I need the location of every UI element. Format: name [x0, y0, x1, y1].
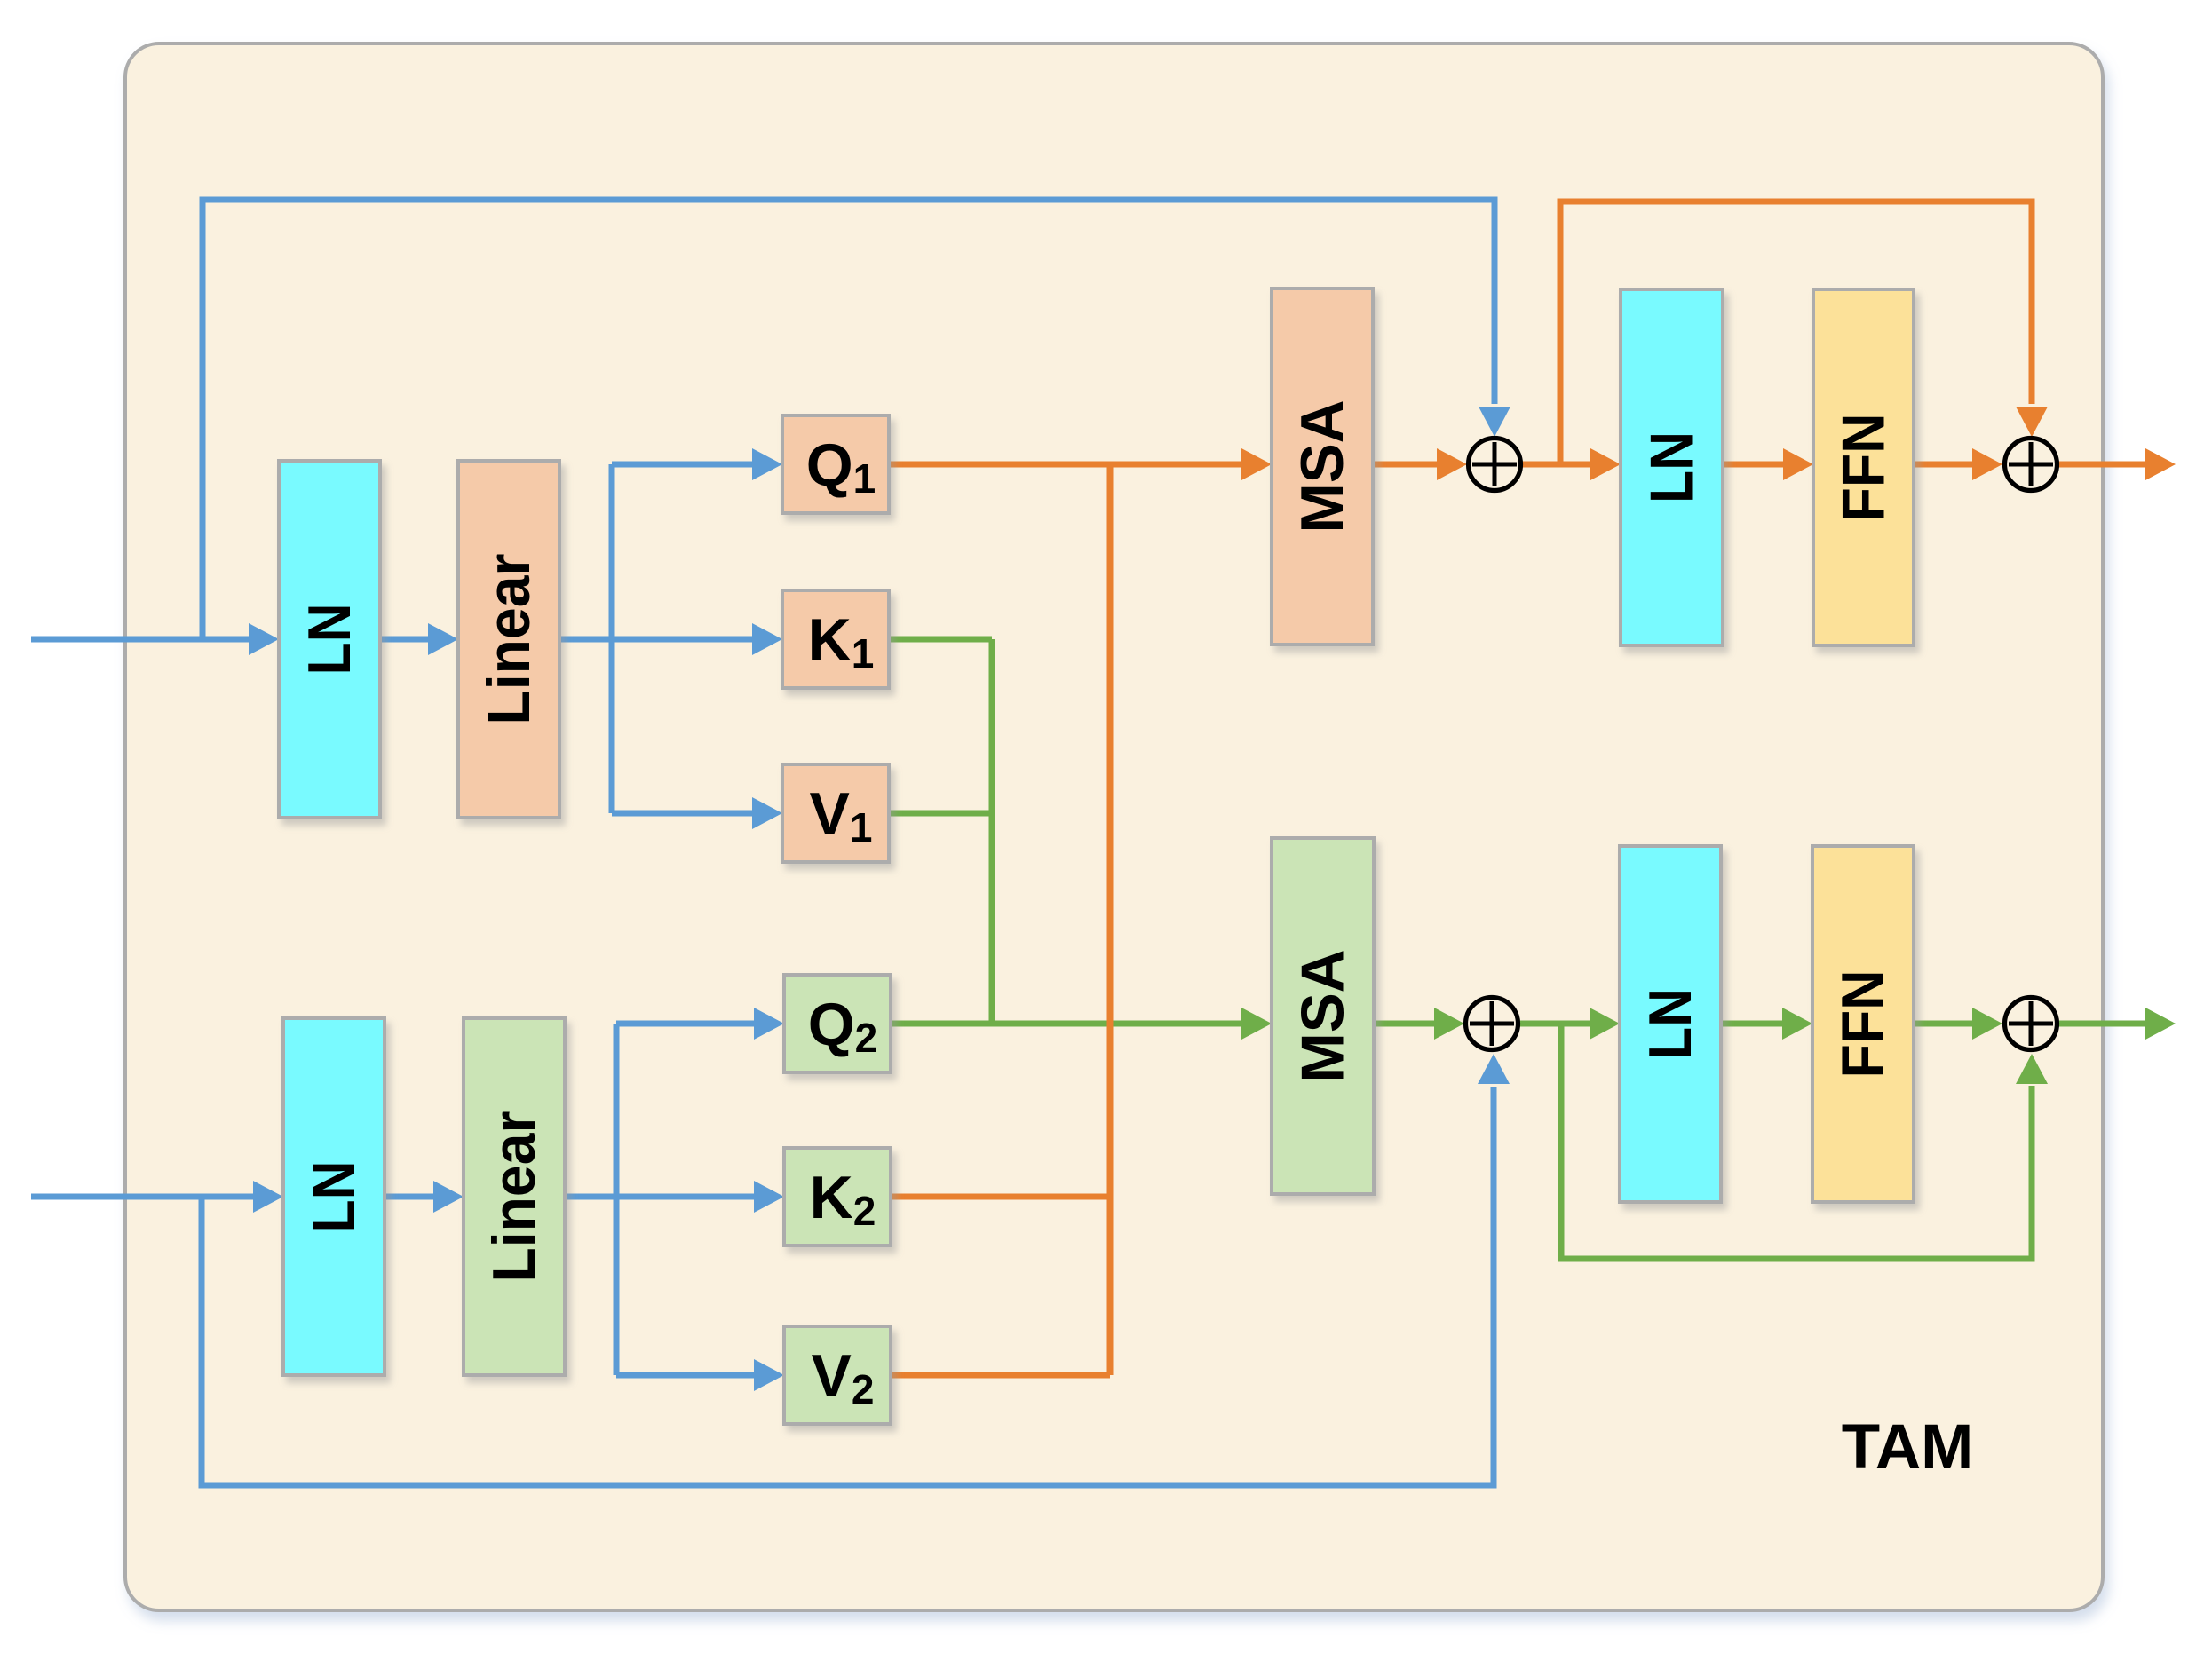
svg-text:MSA: MSA [1289, 950, 1357, 1083]
svg-text:LN: LN [296, 604, 363, 676]
block FFN branch2 [1812, 846, 1914, 1202]
wire LN1 to Linear1 (blue arrow) [380, 623, 458, 655]
wire input 1 (blue arrow) [31, 623, 279, 655]
block K2 [784, 1148, 891, 1246]
block Q2 [784, 975, 891, 1072]
block LN branch2 [283, 1018, 385, 1375]
svg-text:FFN: FFN [1829, 970, 1897, 1079]
adder 2 (after FFN top) [2005, 439, 2057, 491]
block V1 [782, 764, 889, 862]
block LN post-attention branch1 [1621, 289, 1723, 645]
wire residual around LN/FFN bottom (green) [1561, 1024, 2048, 1259]
block MSA branch1 [1272, 289, 1373, 645]
svg-text:LN: LN [300, 1161, 368, 1233]
adder 4 (after FFN bottom) [2005, 998, 2057, 1050]
wire LN2 to Linear2 (blue arrow) [385, 1181, 464, 1213]
wire output 2 (green arrow) [2057, 1008, 2176, 1040]
wire splitter to Q2 (blue arrow) [616, 1008, 784, 1040]
block Linear branch1 [458, 461, 559, 818]
block LN branch1 [279, 461, 380, 818]
wire Linear2 to K2 (blue arrow) [565, 1181, 784, 1213]
svg-text:LN: LN [1637, 988, 1704, 1060]
wire output 1 (orange arrow) [2057, 448, 2176, 480]
wire splitter to V2 (blue arrow) [616, 1359, 784, 1391]
svg-text:TAM: TAM [1842, 1412, 1974, 1483]
wire input 2 (blue arrow) [31, 1181, 283, 1213]
wire LN to FFN top (orange arrow) [1723, 448, 1813, 480]
block Linear branch2 [464, 1018, 565, 1375]
svg-text:FFN: FFN [1830, 414, 1898, 522]
svg-text:Linear: Linear [475, 554, 543, 725]
wire MSA2 to adder (green arrow) [1374, 1008, 1464, 1040]
wire K2 output (orange) [891, 1194, 1110, 1200]
wire LN to FFN bottom (green arrow) [1721, 1008, 1812, 1040]
adder 3 (after MSA2) [1466, 998, 1518, 1050]
svg-text:MSA: MSA [1288, 400, 1356, 534]
block K1 [782, 590, 889, 688]
wire MSA1 to adder (orange arrow) [1373, 448, 1467, 480]
wire V1 output (green) [889, 811, 992, 817]
wire V2 output (orange) [891, 1372, 1110, 1379]
adder 1 (after MSA1) [1469, 439, 1521, 491]
block MSA branch2 [1272, 838, 1374, 1194]
wire adder to LN bottom (green arrow) [1519, 1008, 1620, 1040]
wire K2/V2 vertical feed to MSA1 (orange) [1107, 464, 1114, 1375]
wire skip connection input2 to adder3 (blue) [202, 1054, 1510, 1485]
wire Q1 to MSA1 (orange arrow) [889, 448, 1272, 480]
wire skip connection input1 to adder1 (blue) [202, 200, 1510, 639]
wire K1 output (green) [889, 637, 992, 643]
label TAM [1842, 1412, 1974, 1483]
wire FFN to adder bottom (green arrow) [1914, 1008, 2002, 1040]
wire residual around LN/FFN top (orange) [1560, 202, 2048, 464]
wire QKV splitter 1 vertical (blue) [609, 464, 615, 813]
block FFN branch1 [1813, 289, 1914, 645]
block Q1 [782, 415, 889, 513]
wire adder to LN top (orange arrow) [1522, 448, 1621, 480]
wire Q2 to MSA2 (green arrow) [891, 1008, 1272, 1040]
block V2 [784, 1326, 891, 1424]
wire FFN to adder top (orange arrow) [1914, 448, 2002, 480]
wire QKV splitter 2 vertical (blue) [614, 1024, 620, 1375]
wire K1/V1 vertical feed to MSA2 (green) [989, 639, 995, 1024]
wire splitter to Q1 (blue arrow) [612, 448, 782, 480]
svg-text:LN: LN [1638, 431, 1706, 503]
svg-text:Linear: Linear [480, 1111, 548, 1283]
wire Linear1 to K1 (blue arrow) [559, 623, 782, 655]
wire splitter to V1 (blue arrow) [612, 797, 782, 829]
block LN post-attention branch2 [1620, 846, 1721, 1202]
